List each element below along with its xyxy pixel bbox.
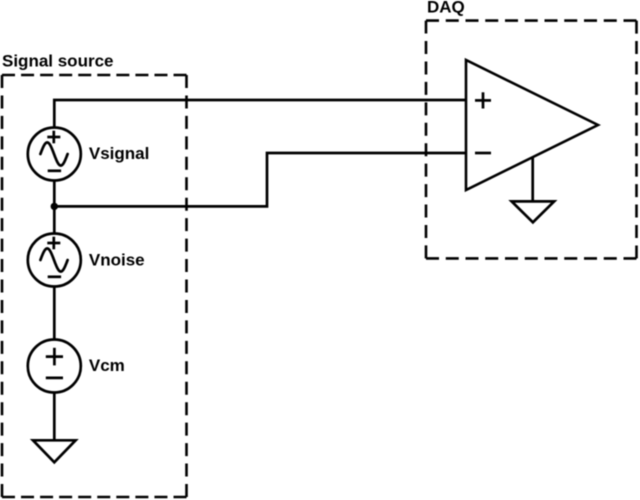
op-amp - pin mark bbox=[475, 152, 491, 155]
source Vsignal bbox=[28, 128, 81, 181]
node junction bbox=[51, 203, 58, 210]
wire Vsignal top to + input bbox=[54, 100, 466, 128]
ground (signal source) bbox=[33, 440, 76, 462]
wire Vsignal bottom to Vnoise top bbox=[53, 181, 56, 234]
wire junction to - input bbox=[54, 153, 466, 206]
wire op-amp to ground bbox=[531, 157, 534, 201]
svg-text:Vcm: Vcm bbox=[89, 356, 125, 375]
box DAQ (dashed) bbox=[426, 21, 637, 259]
source Vnoise bbox=[28, 234, 81, 287]
svg-text:Vsignal: Vsignal bbox=[89, 144, 149, 163]
op-amp + pin mark bbox=[475, 92, 491, 108]
wire Vcm bottom to ground bbox=[53, 393, 56, 442]
svg-text:Signal source: Signal source bbox=[2, 51, 113, 70]
source Vcm bbox=[28, 340, 81, 393]
svg-text:Vnoise: Vnoise bbox=[89, 251, 145, 270]
svg-text:DAQ: DAQ bbox=[427, 0, 465, 17]
box Signal source (dashed) bbox=[2, 75, 187, 497]
wire Vnoise bottom to Vcm top bbox=[53, 287, 56, 340]
ground (DAQ) bbox=[512, 201, 555, 222]
op-amp U1 bbox=[466, 60, 598, 190]
